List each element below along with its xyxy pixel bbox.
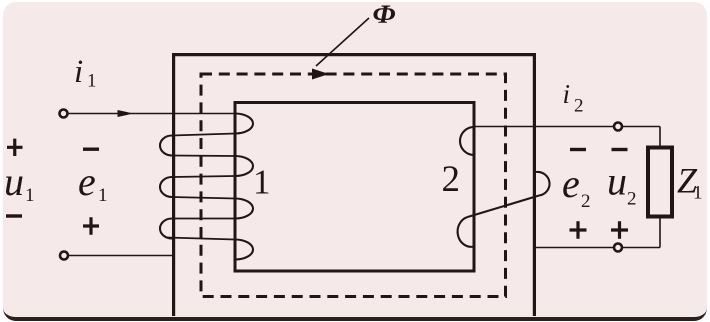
svg-text:2: 2 (442, 159, 461, 200)
svg-text:2: 2 (581, 191, 591, 212)
svg-text:u: u (4, 159, 24, 204)
svg-text:u: u (607, 159, 627, 204)
svg-text:1: 1 (693, 183, 703, 204)
svg-text:Φ: Φ (373, 0, 397, 29)
svg-text:e: e (562, 161, 580, 206)
svg-text:i: i (74, 54, 83, 90)
svg-text:i: i (563, 79, 571, 109)
svg-text:e: e (78, 159, 96, 204)
svg-text:1: 1 (253, 163, 271, 202)
svg-text:1: 1 (98, 185, 108, 206)
svg-text:1: 1 (25, 185, 35, 206)
svg-text:2: 2 (627, 189, 637, 210)
svg-text:2: 2 (574, 96, 584, 117)
svg-text:1: 1 (87, 71, 97, 92)
